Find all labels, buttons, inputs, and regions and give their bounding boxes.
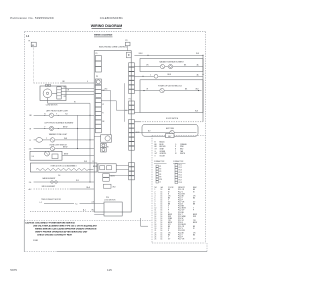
svg-text:P2-1 OR: P2-1 OR: [178, 189, 185, 191]
svg-text:LEFT FRONT SURFACE ELEMENT: LEFT FRONT SURFACE ELEMENT: [45, 122, 75, 125]
svg-text:25: 25: [155, 238, 157, 240]
connector J3 pin group: [95, 85, 105, 97]
svg-text:16: 16: [161, 206, 163, 208]
svg-text:P2: P2: [159, 169, 161, 171]
indicator lamp DS1 on wire: [30, 113, 95, 117]
wire motor neutral W return: [48, 98, 91, 104]
stub wires lower cluster to P6: [116, 166, 128, 170]
svg-text:P1: P1: [159, 166, 161, 168]
svg-text:R-8: R-8: [76, 180, 79, 182]
svg-text:G/Y: G/Y: [155, 153, 158, 155]
svg-text:P24: P24: [106, 197, 109, 199]
wire bake element row: [29, 180, 94, 184]
svg-text:A-1: A-1: [83, 209, 86, 212]
connector P1 terminal box: [31, 42, 36, 47]
wire between enclosures: [140, 73, 203, 78]
svg-text:L-1: L-1: [40, 202, 43, 204]
air tube rounded enclosure: [142, 125, 198, 137]
svg-text:GY: GY: [168, 202, 170, 204]
svg-text:5975: 5975: [10, 268, 17, 272]
connector J1 pin group: [95, 56, 101, 73]
svg-text:GY: GY: [168, 238, 170, 240]
svg-text:W-8: W-8: [196, 53, 199, 55]
svg-text:20: 20: [155, 228, 157, 230]
svg-text:P2-2 G/Y: P2-2 G/Y: [178, 210, 184, 212]
svg-text:16: 16: [161, 199, 163, 201]
svg-text:AIR TUBE: AIR TUBE: [166, 127, 175, 130]
air switch S2 on wire: [144, 130, 197, 134]
svg-text:4: 4: [155, 195, 156, 197]
warmer lamp E2 on wire: [30, 138, 95, 143]
svg-text:P4: P4: [159, 174, 161, 176]
svg-text:4: 4: [87, 81, 88, 83]
board connector box top right: [126, 52, 131, 58]
junction row F at bus: [77, 148, 78, 149]
svg-text:P2-9 BR: P2-9 BR: [178, 206, 185, 208]
legend key tab box: [166, 134, 175, 138]
svg-text:5: 5: [155, 197, 156, 199]
svg-text:P3: P3: [125, 40, 127, 42]
svg-text:P2-1: P2-1: [179, 165, 182, 167]
svg-text:16: 16: [161, 228, 163, 230]
svg-text:2-6: 2-6: [32, 156, 34, 158]
svg-text:P2-5: P2-5: [179, 175, 182, 177]
svg-text:WIRING ERRORS CAN CAUSE IMPROP: WIRING ERRORS CAN CAUSE IMPROPER UNSAFE …: [35, 227, 97, 230]
svg-text:7-1: 7-1: [75, 203, 78, 205]
svg-text:16: 16: [161, 218, 163, 220]
svg-text:BK: BK: [102, 121, 104, 123]
svg-text:BU: BU: [193, 234, 195, 236]
svg-text:P2-3: P2-3: [179, 170, 182, 172]
svg-text:8: 8: [155, 204, 156, 206]
schematic dashed frame top edge: [24, 31, 205, 33]
svg-text:CAUTION: DISCONNECT POWER BEFO: CAUTION: DISCONNECT POWER BEFORE SERVICE: [25, 221, 76, 224]
junction ground bus mid: [202, 74, 203, 75]
wire broil element row: [29, 186, 95, 191]
svg-text:10: 10: [155, 208, 157, 210]
labels above lock assembly: [84, 161, 95, 163]
svg-text:P1: P1: [29, 41, 31, 43]
svg-text:P2: P2: [129, 99, 131, 101]
svg-text:16: 16: [161, 210, 163, 212]
svg-text:16: 16: [161, 202, 163, 204]
svg-text:16: 16: [161, 234, 163, 236]
svg-text:316B9: 316B9: [33, 240, 38, 242]
junction bake at bus: [89, 181, 90, 182]
caution notes text block: [25, 221, 98, 236]
svg-text:P2-7: P2-7: [179, 180, 182, 182]
svg-text:16: 16: [161, 236, 163, 238]
svg-text:BU: BU: [193, 197, 195, 199]
svg-text:BU/W: BU/W: [193, 222, 198, 224]
wire lower harness row: [30, 209, 95, 212]
switch block on strip: [93, 164, 116, 172]
svg-text:R/W: R/W: [193, 216, 197, 218]
wire motor BU: [61, 87, 94, 89]
svg-text:USE ONLY REPLACEMENT WIRE TYPE: USE ONLY REPLACEMENT WIRE TYPE 105 C OR …: [33, 224, 98, 227]
stub wires board to enclosures: [134, 55, 145, 132]
legend dashed box bottom edge: [152, 242, 206, 244]
svg-text:VIOLET: VIOLET: [160, 155, 166, 157]
wire L1 feed to control (BK): [34, 81, 95, 83]
svg-text:P9: P9: [159, 176, 161, 178]
connector P2 upper pin group: [129, 63, 135, 94]
connector P4 pin group: [129, 101, 135, 114]
svg-text:GY: GY: [193, 238, 195, 240]
svg-text:16: 16: [161, 222, 163, 224]
svg-text:P2-6 P: P2-6 P: [178, 236, 183, 238]
svg-text:P: P: [168, 210, 169, 212]
svg-text:P2-1 OR: P2-1 OR: [178, 226, 185, 228]
sheet outline bottom border dashed segment: [24, 251, 57, 253]
svg-text:P2-1 BK/W: P2-1 BK/W: [178, 208, 186, 210]
legend connector table right column: [175, 164, 182, 184]
schematic dashed frame left edge: [23, 32, 25, 221]
svg-text:P2-4 T: P2-4 T: [178, 214, 183, 216]
connector P5 pin group: [129, 120, 140, 151]
connector J4 pin group long: [95, 98, 104, 132]
legend dashed box left edge: [151, 136, 153, 244]
svg-text:BK/W: BK/W: [111, 176, 116, 178]
svg-text:16: 16: [161, 195, 163, 197]
svg-text:BLUE: BLUE: [160, 144, 164, 146]
svg-text:T: T: [168, 208, 169, 210]
svg-text:GRN/YEL: GRN/YEL: [160, 153, 167, 155]
svg-text:R/W: R/W: [168, 216, 172, 218]
svg-text:24: 24: [155, 236, 157, 238]
vertical bus wire x90: [89, 103, 91, 182]
svg-text:BK/W: BK/W: [64, 154, 69, 156]
legend connector table headers: [154, 161, 186, 163]
svg-text:POWER OF UNIT INTERLOCK: POWER OF UNIT INTERLOCK: [158, 86, 183, 88]
svg-text:P2-7 GY: P2-7 GY: [178, 220, 184, 222]
svg-text:BK/W: BK/W: [168, 214, 172, 216]
svg-text:DOOR SWITCH: DOOR SWITCH: [166, 118, 179, 120]
svg-text:B: B: [155, 142, 156, 144]
svg-text:P2-3 BU: P2-3 BU: [178, 212, 184, 214]
svg-text:BU: BU: [168, 234, 170, 236]
svg-text:16: 16: [161, 216, 163, 218]
inner sheet title WIRING DIAGRAM: [94, 34, 113, 37]
svg-text:ELECTRONIC OVEN CONTROL: ELECTRONIC OVEN CONTROL: [99, 47, 127, 49]
svg-text:P2-5 Y: P2-5 Y: [178, 234, 183, 236]
legend dashed box top edge: [152, 135, 206, 137]
legend connector table left column: [156, 165, 162, 184]
connector P3 pigtail box: [125, 42, 130, 50]
door lock motor M2 on strip: [94, 135, 111, 142]
svg-text:P24: P24: [159, 179, 162, 181]
svg-text:Y-8: Y-8: [65, 113, 68, 115]
svg-text:P2-5 Y: P2-5 Y: [178, 197, 183, 199]
svg-text:BK/W: BK/W: [63, 147, 68, 149]
svg-text:16: 16: [161, 232, 163, 234]
svg-text:P2-4: P2-4: [179, 172, 182, 174]
sheet outline bottom left vertical: [23, 221, 25, 252]
svg-text:BK/W: BK/W: [136, 132, 140, 134]
schematic dashed frame right edge: [205, 32, 207, 243]
svg-text:BK/W: BK/W: [93, 166, 98, 168]
ground bus vertical right: [202, 55, 204, 122]
svg-text:16: 16: [161, 193, 163, 195]
svg-text:P2-5 W/BK: P2-5 W/BK: [178, 216, 187, 218]
svg-text:P2-8 G: P2-8 G: [178, 222, 184, 224]
svg-text:16: 16: [161, 214, 163, 216]
svg-text:P2-8: P2-8: [179, 182, 182, 184]
svg-text:19: 19: [155, 226, 157, 228]
svg-text:P2-4 BK: P2-4 BK: [178, 232, 185, 234]
svg-text:P2-3 R/W: P2-3 R/W: [178, 193, 185, 195]
sheet outline bottom right vertical: [206, 243, 208, 252]
svg-text:6: 6: [155, 199, 156, 201]
junction ground bus top: [202, 55, 203, 56]
svg-text:W-8: W-8: [105, 89, 108, 91]
svg-text:T: T: [175, 151, 176, 153]
svg-text:16: 16: [161, 224, 163, 226]
oven interlock enclosure box: [140, 80, 203, 113]
sheet outline bottom border solid segment: [57, 251, 207, 253]
svg-text:BAKE ELEMENT: BAKE ELEMENT: [43, 177, 56, 180]
svg-text:WARMER ZONE LIGHT: WARMER ZONE LIGHT: [49, 133, 67, 136]
legend color code list: [155, 141, 187, 158]
svg-text:CONNECTOR: CONNECTOR: [154, 161, 165, 163]
terminal block on strip: [103, 184, 115, 188]
svg-text:LOCK MOTOR: LOCK MOTOR: [104, 200, 116, 202]
svg-text:BK-8: BK-8: [139, 53, 143, 55]
svg-text:W-8: W-8: [195, 111, 198, 113]
svg-text:P9: P9: [95, 53, 97, 55]
svg-text:BK/W: BK/W: [63, 127, 68, 129]
svg-text:P2-9 BU/W: P2-9 BU/W: [178, 224, 186, 226]
connector P6 pin group: [129, 163, 135, 180]
svg-text:16: 16: [161, 204, 163, 206]
wire control to right bus: [139, 53, 203, 56]
svg-text:CONNECTOR: CONNECTOR: [173, 161, 184, 163]
board internal route wire 2: [101, 101, 128, 111]
wire door switch to strip: [62, 154, 94, 156]
svg-text:TWIN CONVECT MOTOR: TWIN CONVECT MOTOR: [41, 199, 61, 201]
svg-text:RADIANT SURFACE ELEMENT: RADIANT SURFACE ELEMENT: [159, 61, 183, 64]
radiant element E3 on wire: [140, 64, 203, 69]
svg-text:WIRING DIAGRAM: WIRING DIAGRAM: [91, 24, 123, 28]
svg-text:16: 16: [161, 212, 163, 214]
svg-text:16: 16: [161, 197, 163, 199]
svg-text:BU: BU: [168, 197, 170, 199]
legend wire list table header: [155, 186, 198, 189]
svg-text:WIRING DIAGRAM: WIRING DIAGRAM: [94, 34, 113, 37]
svg-text:P2-2: P2-2: [179, 167, 182, 169]
oven lamp DS2 on wire: [29, 146, 94, 150]
svg-text:P2-3 R/W: P2-3 R/W: [178, 230, 185, 232]
svg-text:Publication No. 5995599299: Publication No. 5995599299: [10, 16, 54, 20]
svg-text:J1: J1: [159, 182, 161, 184]
svg-text:COLOR: COLOR: [168, 187, 174, 189]
wire motor W: [61, 90, 94, 92]
svg-text:WHITE: WHITE: [180, 153, 185, 155]
svg-text:16: 16: [161, 220, 163, 222]
svg-text:CONV MOTOR: CONV MOTOR: [46, 104, 58, 106]
lock heater element zigzag: [36, 168, 93, 170]
title WIRING DIAGRAM: [91, 24, 123, 28]
svg-text:2: 2: [155, 191, 156, 193]
svg-text:23: 23: [155, 234, 157, 236]
svg-text:13: 13: [155, 214, 157, 216]
svg-text:P2-7 Y/R: P2-7 Y/R: [178, 238, 185, 240]
svg-text:BU: BU: [155, 144, 157, 146]
motor terminal block: [57, 87, 61, 99]
svg-text:14: 14: [155, 216, 157, 218]
svg-text:21: 21: [155, 230, 157, 232]
svg-text:2-6: 2-6: [92, 201, 95, 203]
svg-text:P2-6 P: P2-6 P: [178, 199, 183, 201]
svg-text:16: 16: [161, 230, 163, 232]
surface element E1 on wire: [30, 126, 95, 130]
svg-text:115: 115: [107, 268, 112, 272]
svg-text:P2-4 BK: P2-4 BK: [178, 195, 185, 197]
wire door switch dashed: [140, 121, 203, 123]
svg-text:OVEN DOOR LOCK ASSEMBLY: OVEN DOOR LOCK ASSEMBLY: [50, 165, 77, 168]
svg-text:BROWN: BROWN: [160, 146, 166, 148]
svg-text:BROIL ELEMENT: BROIL ELEMENT: [42, 186, 55, 188]
junction row E at bus: [89, 139, 90, 140]
svg-text:P: P: [175, 146, 176, 148]
svg-text:P: P: [193, 210, 194, 212]
svg-text:P3: P3: [159, 171, 161, 173]
svg-text:CGEB30S9FB1: CGEB30S9FB1: [100, 16, 123, 20]
electronic oven control board outline U1: [94, 51, 131, 212]
svg-text:FROM-TO: FROM-TO: [178, 187, 186, 189]
svg-text:P2-6 W: P2-6 W: [178, 218, 184, 220]
svg-text:P2-6: P2-6: [179, 177, 182, 179]
svg-text:VERIFY PROPER OPERATION AFTER: VERIFY PROPER OPERATION AFTER SERVICING …: [35, 230, 88, 233]
junction row C at bus: [89, 115, 90, 116]
svg-text:W-8: W-8: [196, 88, 199, 90]
relay block on strip: [103, 174, 131, 182]
radiant surface element enclosure box: [140, 59, 203, 72]
svg-text:BU/W: BU/W: [168, 222, 173, 224]
svg-text:GY: GY: [155, 149, 157, 151]
svg-text:16: 16: [161, 226, 163, 228]
svg-text:2-6: 2-6: [29, 182, 32, 184]
svg-text:T: T: [193, 208, 194, 210]
svg-text:1: 1: [155, 189, 156, 191]
svg-text:P2-7 Y/R: P2-7 Y/R: [178, 202, 185, 204]
connector J5 pin group with lamps: [101, 143, 109, 152]
svg-text:3: 3: [155, 193, 156, 195]
oven door lock assembly box: [30, 163, 97, 172]
oven door switch S1 box: [30, 151, 62, 160]
svg-text:W-8: W-8: [113, 186, 116, 188]
wire twin convect row: [40, 201, 95, 205]
svg-text:BK-8: BK-8: [168, 74, 172, 76]
svg-text:22: 22: [155, 232, 157, 234]
junction row D at bus: [77, 128, 78, 129]
interlock switch on wire: [142, 88, 202, 92]
svg-text:G/Y: G/Y: [168, 224, 171, 226]
svg-text:W-8: W-8: [64, 138, 67, 140]
svg-text:2-6: 2-6: [58, 175, 60, 177]
lock motor block corner lines: [141, 218, 149, 226]
connector J2 pin with lamp symbol: [95, 79, 101, 85]
svg-text:15: 15: [155, 218, 157, 220]
svg-text:16: 16: [161, 191, 163, 193]
svg-text:16: 16: [161, 189, 163, 191]
vertical bus wire x77: [77, 115, 79, 148]
lock motor block box: [94, 202, 122, 216]
svg-text:Y: Y: [168, 199, 169, 201]
convection fan motor M1: [40, 84, 66, 100]
svg-text:16: 16: [155, 220, 157, 222]
wire motor OR: [61, 95, 94, 99]
svg-text:GREEN: GREEN: [160, 151, 166, 153]
svg-text:BK/W: BK/W: [193, 214, 197, 216]
board internal route wire 1: [101, 89, 110, 135]
svg-text:17: 17: [155, 222, 157, 224]
wire L1 bus vertical: [33, 47, 35, 83]
board internal route wire 3: [123, 83, 125, 122]
svg-text:16: 16: [161, 208, 163, 210]
svg-text:9: 9: [155, 206, 156, 208]
svg-text:12: 12: [155, 212, 157, 214]
svg-text:LEFT FRONT SURF LIGHT: LEFT FRONT SURF LIGHT: [46, 110, 69, 112]
svg-text:7: 7: [155, 202, 156, 204]
svg-text:18: 18: [155, 224, 157, 226]
svg-text:GY: GY: [193, 202, 195, 204]
svg-text:Y: Y: [168, 236, 169, 238]
svg-text:CHECK GROUND CONTINUITY PATH: CHECK GROUND CONTINUITY PATH: [37, 233, 73, 236]
svg-text:16: 16: [161, 238, 163, 240]
svg-text:P9: P9: [96, 76, 98, 78]
schematic dashed frame bottom edge: [24, 220, 152, 222]
svg-text:2-6: 2-6: [29, 149, 32, 151]
svg-text:11: 11: [155, 210, 157, 212]
legend wire list table rows: [155, 189, 198, 240]
